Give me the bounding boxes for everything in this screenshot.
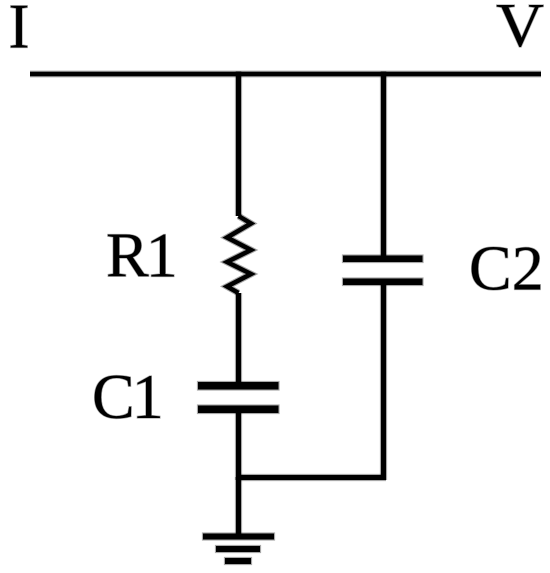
wire right branch from bus down to C2 (380, 72, 387, 257)
svg-text:R1: R1 (106, 220, 175, 291)
wire bottom junction horizontal (236, 474, 386, 481)
wire R1 to C1 (235, 293, 242, 383)
ground (202, 532, 275, 565)
capacitor C1 (197, 381, 280, 414)
wire C1 to bottom junction (235, 413, 242, 480)
wire left branch from bus down to R1 (235, 72, 242, 217)
svg-text:I: I (9, 0, 30, 62)
resistor R1 (227, 216, 251, 293)
wire C2 to bottom junction (380, 285, 387, 480)
svg-text:C1: C1 (92, 361, 161, 432)
wire top bus from I to V (30, 71, 541, 78)
capacitor C2 (342, 254, 424, 286)
svg-text:V: V (496, 0, 544, 60)
svg-text:C2: C2 (469, 233, 544, 304)
wire junction to ground (235, 477, 242, 535)
